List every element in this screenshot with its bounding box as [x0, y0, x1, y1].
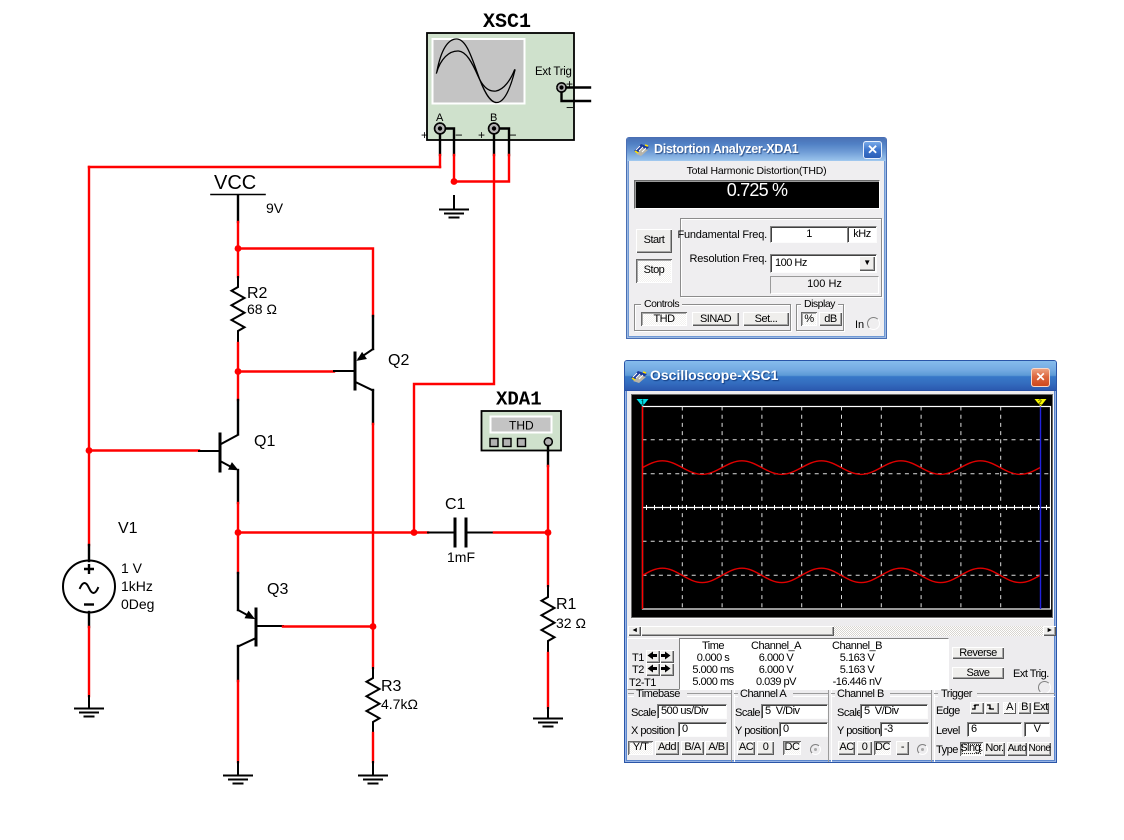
wire: VCC net top horizontal [89, 166, 440, 168]
ground (R3) [359, 762, 387, 784]
svg-text:2: 2 [1038, 400, 1042, 407]
wire: C1 right to R1 node [494, 531, 548, 533]
svg-text:1kHz: 1kHz [121, 578, 153, 594]
graticule border [643, 407, 1051, 610]
node junction at V1/Q1 base [86, 447, 93, 454]
svg-text:XSC1: XSC1 [483, 11, 531, 34]
kHz unit box [847, 226, 877, 243]
wire: node down to Q3 emitter [237, 533, 239, 574]
terminal B [478, 112, 517, 143]
svg-text:Q3: Q3 [267, 581, 288, 598]
svg-text:VCC: VCC [214, 172, 256, 194]
node junction scope ground [451, 178, 458, 185]
window: Oscilloscope-XSC1 [624, 360, 1057, 763]
svg-text:A: A [436, 112, 444, 124]
waveform channel A [583, 461, 1060, 475]
svg-text:−: − [509, 128, 517, 143]
svg-text:Q2: Q2 [388, 352, 409, 369]
horizontal scrollbar [628, 626, 1056, 636]
wire: scope B+ down to output node [414, 133, 494, 533]
svg-text:1mF: 1mF [447, 549, 475, 565]
wire: scope A- to ground node [444, 129, 454, 182]
wire: junction to Q1 base [89, 449, 199, 451]
SINAD button [692, 312, 739, 326]
wire: scope A+ to top net [439, 133, 441, 167]
THD readout display [634, 180, 880, 209]
percent button [801, 312, 817, 326]
svg-text:1: 1 [641, 400, 645, 407]
svg-text:−: − [566, 100, 574, 115]
section dividers and labels [625, 688, 1058, 764]
titlebar icon [630, 368, 648, 384]
node junction C1/R1/XDA1 [545, 529, 552, 536]
svg-text:R2: R2 [247, 285, 268, 302]
window: Distortion Analyzer-XDA1 [626, 137, 887, 339]
svg-text:B: B [490, 112, 497, 124]
ground (R1) [534, 708, 562, 727]
terminal A [421, 112, 463, 143]
node junction Q3 base/R3 [370, 623, 377, 630]
Stop button [636, 259, 672, 283]
node junction C1 left / scope B [411, 529, 418, 536]
svg-text:1 V: 1 V [121, 560, 143, 576]
THD caption [627, 165, 886, 177]
wire: Q3 base to R3 node [283, 625, 373, 627]
Display group [796, 304, 844, 331]
wire: left vertical to V1 [88, 167, 90, 545]
capacitor C1 [428, 519, 494, 546]
transistor Q2 (PNP) [334, 316, 373, 424]
svg-text:+: + [421, 128, 428, 142]
svg-text:V1: V1 [118, 520, 138, 537]
svg-text:R3: R3 [381, 678, 402, 695]
frequency group box [680, 218, 882, 297]
channel A controls [735, 707, 760, 719]
svg-text:+: + [566, 77, 573, 91]
Resolution Freq. label [657, 253, 767, 265]
wire: output node to C1 [238, 531, 428, 533]
power VCC symbol [211, 195, 265, 249]
node junction VCC rail [235, 245, 242, 252]
svg-text:68 Ω: 68 Ω [247, 301, 277, 317]
node junction Q1 emitter/Q3 emitter/C1 [235, 529, 242, 536]
Fundamental Freq. field [770, 226, 848, 243]
wire: scope B- down and left to ground node [454, 129, 509, 182]
node junction R2/Q1 collector/Q2 base [235, 368, 242, 375]
wire: V1 to ground [88, 627, 90, 696]
waveform channel B [583, 568, 1060, 582]
svg-text:THD: THD [509, 419, 534, 433]
instrument XSC1 oscilloscope icon [427, 33, 574, 140]
svg-text:C1: C1 [445, 496, 466, 513]
wire: Q2 collector down to Q3 base node [372, 424, 374, 627]
close button [863, 141, 882, 159]
close button [1031, 368, 1050, 387]
ground (scope) [440, 196, 468, 218]
svg-text:XDA1: XDA1 [496, 389, 542, 411]
cursor T1 [642, 407, 644, 610]
Resolution Freq. combo [770, 254, 877, 273]
svg-text:4.7kΩ: 4.7kΩ [381, 696, 418, 712]
In radio [855, 319, 864, 331]
svg-text:0Deg: 0Deg [121, 596, 154, 612]
wire: VCC junction to Q2 emitter [238, 249, 373, 317]
Controls group [634, 304, 791, 331]
resolution static box [770, 276, 879, 294]
ground (Q3) [224, 762, 252, 784]
wire: Q1 emitter to output node [237, 503, 239, 533]
svg-text:−: − [455, 128, 463, 143]
cursor T2 [1040, 407, 1042, 610]
wire: junction to Q2 base [238, 370, 334, 372]
resistor R3 [367, 627, 380, 763]
wire: VCC junction down to R2 [237, 249, 239, 278]
transistor Q1 (NPN) [199, 400, 238, 503]
wire: Q3 collector to ground [237, 681, 239, 762]
THD button [641, 312, 687, 326]
svg-text:Q1: Q1 [254, 433, 275, 450]
titlebar icon [633, 142, 650, 157]
svg-text:32 Ω: 32 Ω [556, 615, 586, 631]
cursor readouts [627, 638, 681, 690]
scope display [632, 395, 1052, 617]
Fundamental Freq. label [657, 229, 767, 241]
resistor R2 [232, 277, 245, 343]
Start button [636, 229, 672, 253]
trigger controls [936, 705, 960, 717]
wire: XDA1 terminal down to node [547, 446, 549, 533]
dashed horizontal gridlines [643, 440, 1051, 575]
resistor R1 [542, 533, 555, 709]
wire: junction down to Q1 collector [237, 372, 239, 401]
instrument XDA1 distortion analyzer icon [482, 411, 562, 451]
Save button [952, 667, 1004, 679]
Reverse button [952, 647, 1004, 659]
ground (V1) [75, 696, 103, 717]
svg-text:9V: 9V [266, 200, 284, 216]
svg-text:R1: R1 [556, 596, 577, 613]
ac source V1 [63, 545, 115, 627]
transistor Q3 (PNP mirrored) [238, 573, 283, 681]
dB button [819, 312, 842, 326]
Set... button [743, 312, 789, 326]
timebase controls [631, 707, 656, 719]
terminal Ext Trig [557, 77, 590, 115]
center axis with ticks [643, 507, 1051, 509]
wire: R2 bottom to junction [237, 343, 239, 372]
svg-text:+: + [478, 128, 485, 142]
channel B controls [837, 707, 862, 719]
dashed vertical gridlines [682, 407, 1000, 610]
